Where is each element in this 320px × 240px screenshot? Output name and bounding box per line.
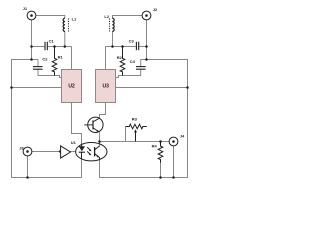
svg-text:R3: R3 bbox=[132, 117, 138, 122]
svg-text:C2: C2 bbox=[42, 56, 48, 61]
svg-text:J2: J2 bbox=[153, 7, 158, 12]
svg-text:U2: U2 bbox=[68, 84, 75, 90]
svg-text:J1: J1 bbox=[23, 6, 28, 11]
svg-text:C4: C4 bbox=[130, 59, 136, 64]
svg-text:U3: U3 bbox=[102, 84, 109, 90]
svg-text:R4: R4 bbox=[152, 144, 158, 149]
svg-text:R1: R1 bbox=[58, 55, 64, 60]
svg-text:L1: L1 bbox=[72, 16, 77, 21]
svg-text:J4: J4 bbox=[180, 134, 185, 139]
svg-text:L2: L2 bbox=[104, 14, 109, 19]
svg-text:R2: R2 bbox=[117, 55, 123, 60]
svg-text:C1: C1 bbox=[49, 38, 55, 43]
svg-text:J3: J3 bbox=[19, 145, 24, 150]
svg-text:U1: U1 bbox=[71, 140, 77, 145]
svg-text:C3: C3 bbox=[129, 38, 135, 43]
